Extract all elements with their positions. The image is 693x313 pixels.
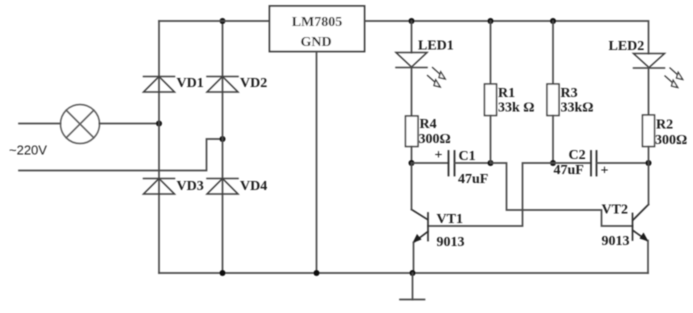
node rail VD4 xyxy=(220,270,226,276)
diode VD1 xyxy=(144,77,175,93)
LED LED2 xyxy=(634,54,665,69)
node rail LED1 xyxy=(409,18,415,24)
wire R1 rail drop xyxy=(490,21,492,84)
svg-text:R3: R3 xyxy=(561,86,578,101)
regulator U1 LM7805 xyxy=(270,6,365,52)
transistor VT2 xyxy=(633,205,649,242)
LED LED1 xyxy=(396,53,427,68)
wire R4 to node xyxy=(411,147,413,164)
wire coupling C2 to VT1 base xyxy=(428,163,553,226)
svg-text:GND: GND xyxy=(300,35,331,50)
wire top rail right xyxy=(365,21,649,54)
wire top rail left xyxy=(159,20,270,22)
svg-text:33k Ω: 33k Ω xyxy=(498,101,535,116)
node AC bottom junction xyxy=(220,136,226,142)
svg-text:LED1: LED1 xyxy=(418,39,454,54)
svg-text:+: + xyxy=(601,164,609,179)
wire AC input bottom xyxy=(19,139,223,171)
wire AC input top xyxy=(19,123,61,125)
node rail R1 xyxy=(488,18,494,24)
svg-text:47uF: 47uF xyxy=(554,163,584,178)
svg-text:LM7805: LM7805 xyxy=(292,15,343,30)
svg-text:9013: 9013 xyxy=(602,234,630,249)
svg-text:R1: R1 xyxy=(498,86,515,101)
node R1 bottom junction xyxy=(488,160,494,166)
wire VT1 emitter drop xyxy=(413,243,415,274)
wire C2 right to node xyxy=(597,162,649,164)
LED1 light arrows xyxy=(428,68,446,88)
capacitor C1 xyxy=(449,151,455,176)
wire VT2 collector drop xyxy=(648,163,650,205)
node rail VT1 emitter xyxy=(410,270,416,276)
wire R2 to node xyxy=(648,147,650,164)
svg-text:VT2: VT2 xyxy=(602,203,628,218)
node rail R3 xyxy=(550,18,556,24)
wire R1 to node xyxy=(490,116,492,164)
resistor R3 xyxy=(547,84,559,116)
resistor R1 xyxy=(485,84,497,116)
svg-text:47uF: 47uF xyxy=(458,172,488,187)
node R2 bottom junction xyxy=(646,160,652,166)
node R3 bottom junction xyxy=(550,160,556,166)
svg-text:R2: R2 xyxy=(656,118,673,133)
diode VD4 xyxy=(207,179,238,195)
resistor R4 xyxy=(406,116,419,147)
wire right column xyxy=(222,21,224,273)
wire VT2 emitter drop xyxy=(647,241,649,274)
resistor R2 xyxy=(643,115,655,147)
svg-text:C1: C1 xyxy=(459,149,476,164)
svg-text:VD1: VD1 xyxy=(177,76,204,91)
wire VT1 collector drop xyxy=(411,163,413,210)
node top rail VD2 xyxy=(220,18,226,24)
svg-text:LED2: LED2 xyxy=(609,39,645,54)
wire LM7805 GND pin xyxy=(316,52,318,274)
svg-text:300Ω: 300Ω xyxy=(419,132,451,147)
svg-text:9013: 9013 xyxy=(437,235,465,250)
lamp xyxy=(61,105,100,144)
wire lamp to left column xyxy=(100,123,160,125)
svg-text:33kΩ: 33kΩ xyxy=(561,101,594,116)
wire rail to LED1 xyxy=(411,21,413,53)
svg-text:VD3: VD3 xyxy=(177,179,204,194)
capacitor C2 xyxy=(591,151,597,176)
svg-text:R4: R4 xyxy=(420,117,437,132)
node lamp junction xyxy=(156,121,162,127)
wire C1 right to node xyxy=(455,162,491,164)
svg-text:VD4: VD4 xyxy=(240,179,267,194)
diode VD3 xyxy=(144,179,175,195)
wire bottom rail xyxy=(159,272,648,274)
wire R3 node to C2 left xyxy=(553,162,591,164)
svg-text:~220V: ~220V xyxy=(9,143,47,158)
wire LED1 to R4 xyxy=(411,68,413,117)
svg-text:300Ω: 300Ω xyxy=(655,133,687,148)
wire coupling C1 to VT2 base xyxy=(491,163,633,226)
ground xyxy=(400,273,425,300)
wire R3 to node xyxy=(552,116,554,164)
wire LED2 to R2 xyxy=(648,68,650,115)
wire left column xyxy=(158,21,160,273)
LED2 light arrows xyxy=(665,68,683,88)
wire R3 rail drop xyxy=(552,21,554,84)
node VT1 collector junction xyxy=(409,160,415,166)
wire node to C1 left xyxy=(412,162,449,164)
diode VD2 xyxy=(207,77,238,93)
svg-text:C2: C2 xyxy=(569,148,586,163)
svg-text:+: + xyxy=(435,148,443,163)
svg-text:VD2: VD2 xyxy=(240,76,267,91)
svg-text:VT1: VT1 xyxy=(437,212,463,227)
transistor VT1 xyxy=(412,210,429,244)
node rail GND pin xyxy=(314,270,320,276)
